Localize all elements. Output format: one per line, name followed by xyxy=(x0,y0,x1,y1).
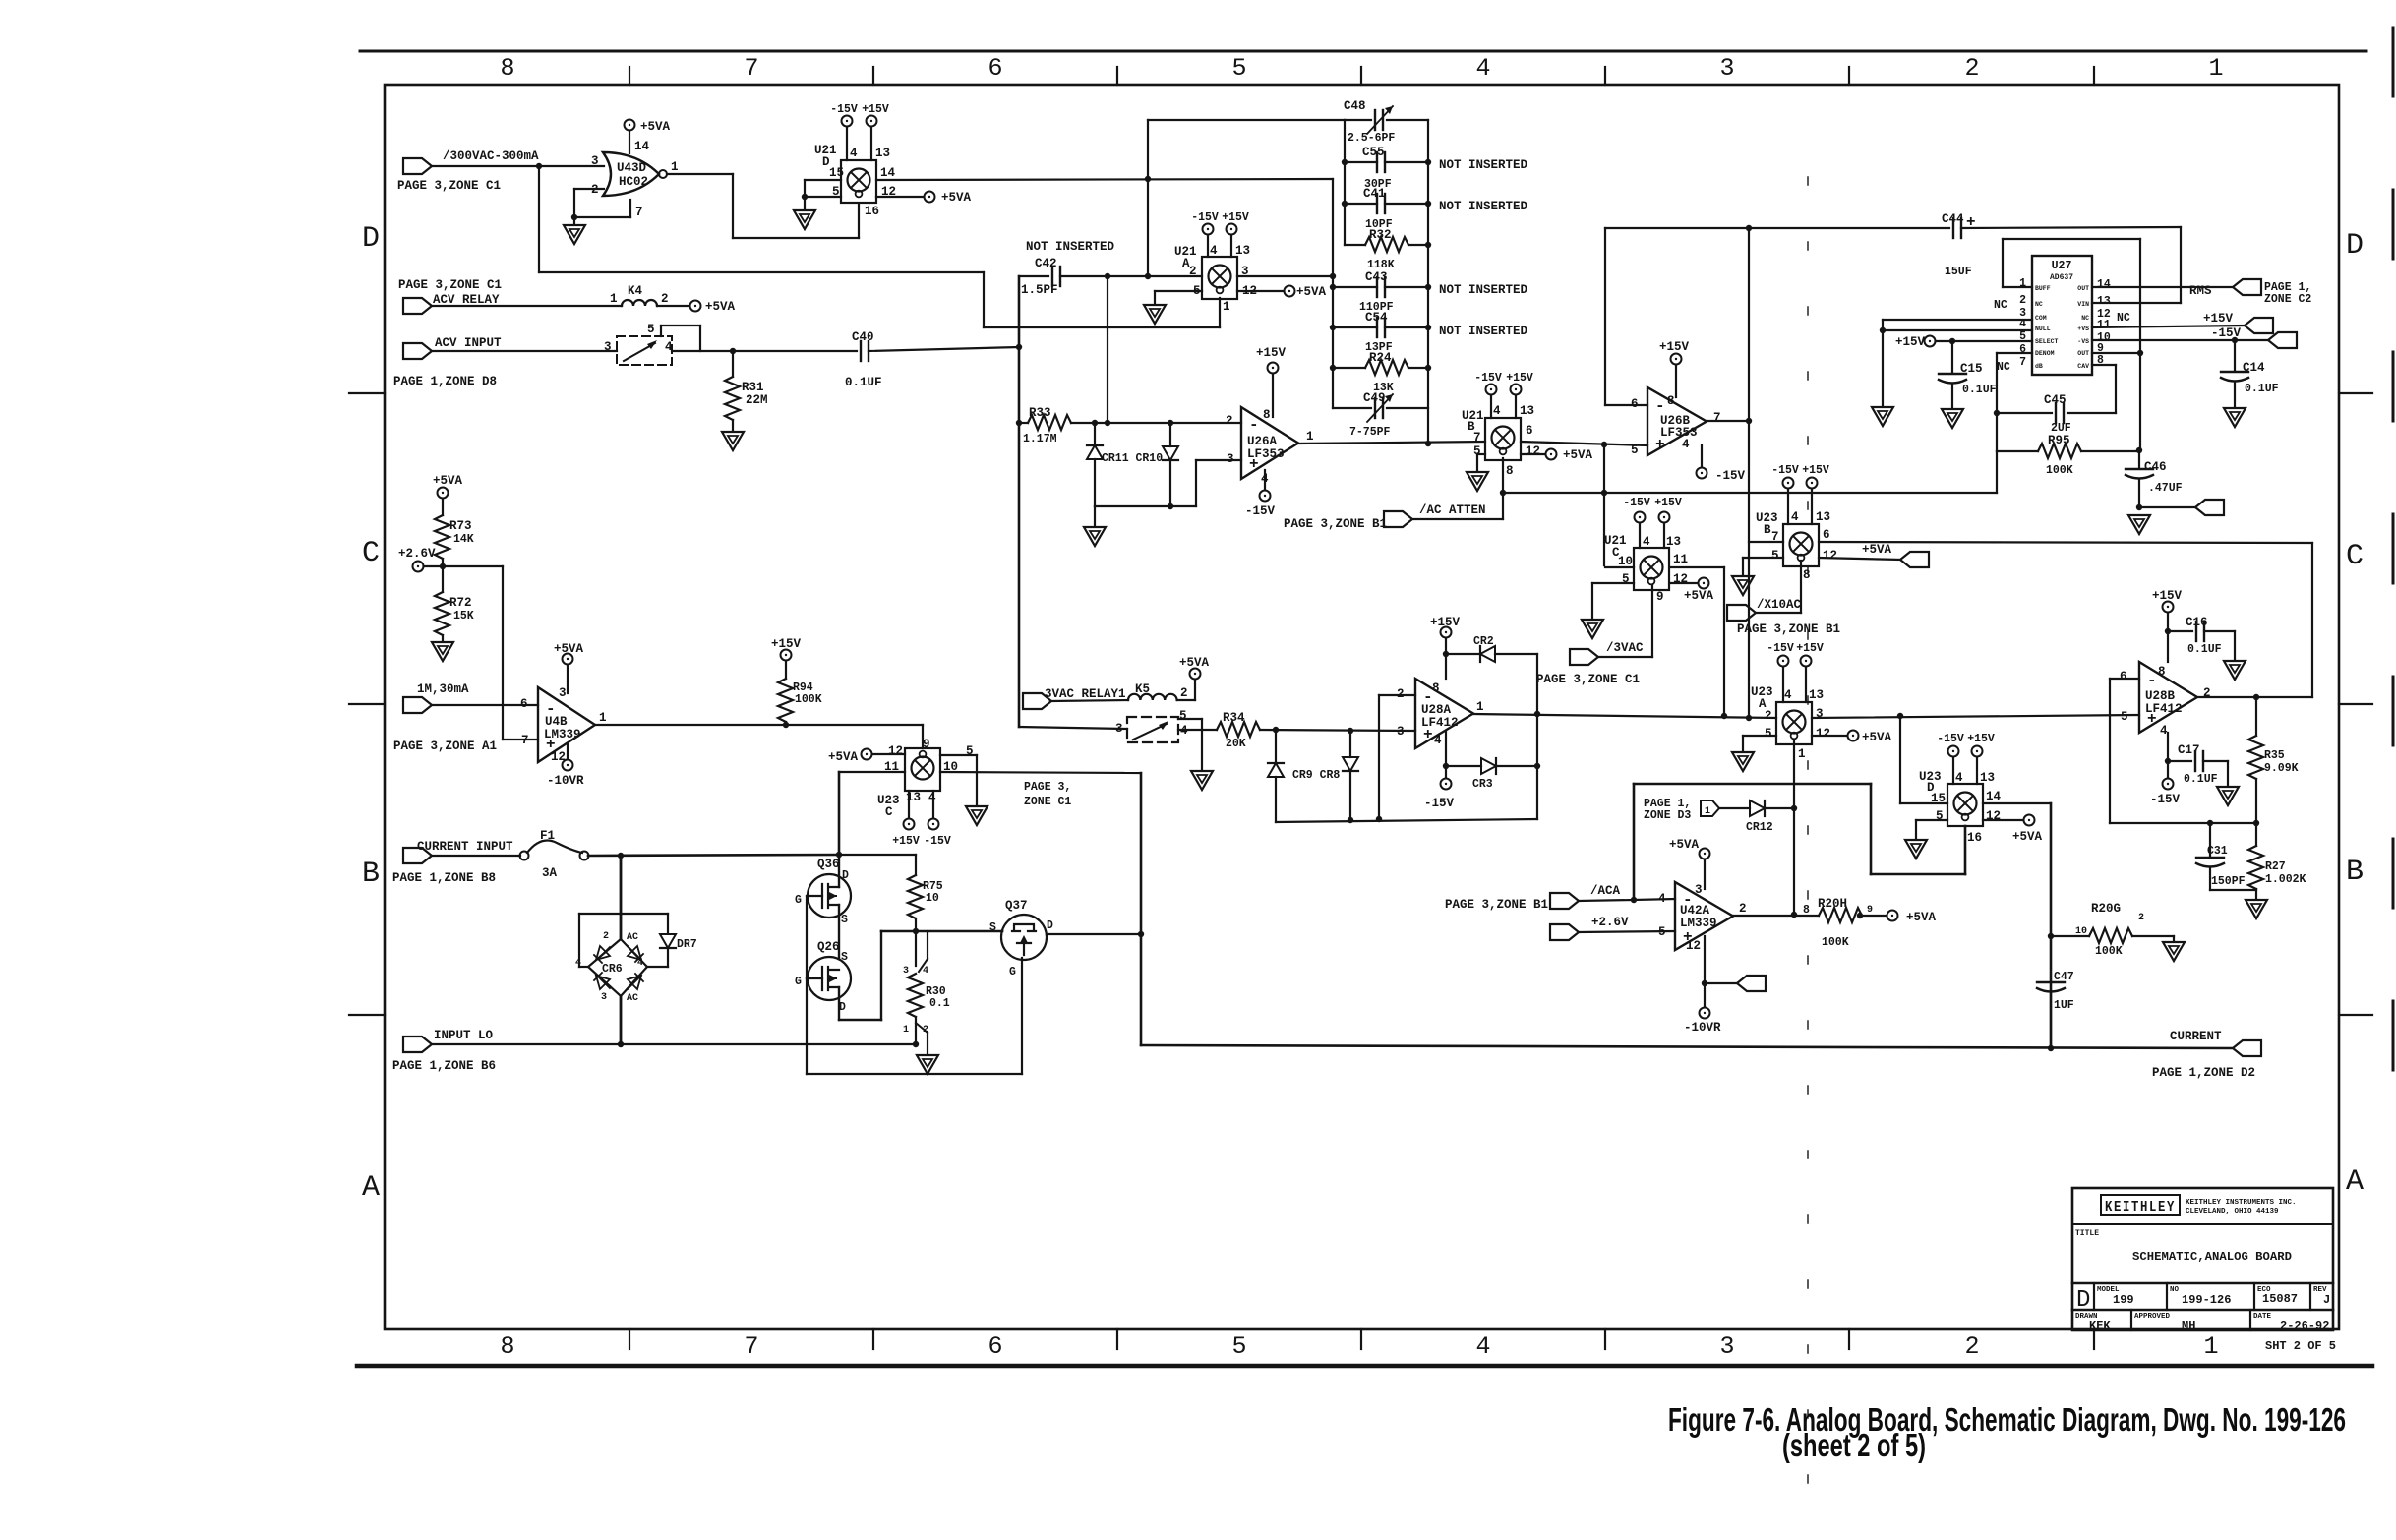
mux switch U23B xyxy=(1783,524,1819,566)
svg-text:13: 13 xyxy=(875,147,890,160)
node R94 bottom xyxy=(783,722,789,728)
wire U23D pin 4 xyxy=(1952,757,1954,784)
svg-text:Figure 7-6. Analog Board, Sche: Figure 7-6. Analog Board, Schematic Diag… xyxy=(1668,1401,2346,1438)
output tag at U42A pin 12 xyxy=(1737,976,1766,991)
input tag 1M,30mA xyxy=(403,697,432,713)
node rail at U21A output xyxy=(1330,273,1336,279)
svg-text:C55: C55 xyxy=(1362,146,1385,159)
ground U23C pin 5 xyxy=(966,806,988,825)
svg-text:16: 16 xyxy=(1967,831,1982,845)
wire C46 node to tag xyxy=(2139,506,2195,508)
svg-text:NULL: NULL xyxy=(2035,326,2051,332)
svg-text:13: 13 xyxy=(1235,244,1250,258)
svg-text:CR9 CR8: CR9 CR8 xyxy=(1292,769,1340,782)
wire K4 coil to +5VA xyxy=(657,305,689,307)
node C42 line x1126 xyxy=(1105,273,1110,279)
wire U23B pin 13 xyxy=(1811,489,1813,524)
wire U23C pin 4 power xyxy=(932,791,934,818)
svg-text:+15V: +15V xyxy=(1659,340,1690,354)
svg-text:C45: C45 xyxy=(2044,393,2067,407)
svg-text:-15V: -15V xyxy=(924,835,951,848)
svg-text:12: 12 xyxy=(1686,939,1701,953)
ground R72 xyxy=(432,642,453,661)
svg-text:+15V: +15V xyxy=(1506,372,1533,385)
svg-text:-15V: -15V xyxy=(1424,797,1455,810)
svg-text:12: 12 xyxy=(1816,727,1830,740)
wire K5 coil to +5VA xyxy=(1177,699,1195,701)
svg-text:RMS: RMS xyxy=(2189,284,2212,298)
svg-text:+15V: +15V xyxy=(1802,464,1829,477)
wire C42 branch xyxy=(1019,275,1048,277)
svg-text:1: 1 xyxy=(1223,300,1230,314)
wire U28A output xyxy=(1473,714,1776,718)
svg-text:6: 6 xyxy=(2120,670,2127,683)
svg-text:C54: C54 xyxy=(1365,311,1388,325)
capacitor C31 xyxy=(2209,823,2211,856)
diode DR7 xyxy=(660,934,676,948)
wire x1778 vertical xyxy=(1748,228,1750,718)
svg-text:R24: R24 xyxy=(1369,351,1392,365)
wire U21C pin 10 from feedback xyxy=(1605,566,1634,568)
wire U21C pin 12 to +5VA xyxy=(1670,582,1698,584)
svg-text:-15V: -15V xyxy=(1191,211,1219,224)
svg-text:4: 4 xyxy=(1791,510,1799,524)
transistor Q37 xyxy=(1001,915,1047,960)
bridge box top xyxy=(579,913,668,915)
node x1167 at C42 line xyxy=(1145,273,1151,279)
svg-text:2: 2 xyxy=(603,931,609,942)
ladder upper left rail xyxy=(1344,120,1346,245)
node ACV at x1036 xyxy=(1016,344,1022,350)
svg-text:/ACA: /ACA xyxy=(1590,884,1621,898)
svg-text:MH: MH xyxy=(2182,1319,2195,1333)
wire y501 corner to R95 node xyxy=(1996,451,1998,493)
svg-text:OUT: OUT xyxy=(2077,285,2089,292)
node x1778 at U28A out line xyxy=(1746,715,1752,721)
svg-text:6: 6 xyxy=(1823,528,1830,542)
svg-text:C16: C16 xyxy=(2186,616,2208,629)
svg-text:7: 7 xyxy=(744,54,758,83)
ground diode clamp xyxy=(1084,527,1106,546)
ground R27 xyxy=(2246,900,2267,918)
capacitor C42 (not inserted) xyxy=(1051,267,1053,286)
resistor R32 xyxy=(1345,244,1365,246)
wire U23B pin 12 to +5VA tag xyxy=(1819,558,1900,560)
wire U26A output to U21B xyxy=(1298,442,1485,444)
wire U21C pin 4 xyxy=(1639,523,1641,548)
wire U23C pin 13 power xyxy=(908,791,910,818)
svg-text:+5VA: +5VA xyxy=(1179,656,1210,670)
input tag INPUT LO xyxy=(403,1037,432,1052)
resistor R95 xyxy=(1997,450,2038,452)
svg-text:10: 10 xyxy=(2075,926,2087,937)
svg-text:F1: F1 xyxy=(540,829,555,843)
input tag /3VAC xyxy=(1570,649,1598,665)
svg-text:0.1: 0.1 xyxy=(929,997,950,1010)
svg-text:22M: 22M xyxy=(746,393,768,407)
transistor Q26 xyxy=(808,957,851,1000)
svg-text:CURRENT: CURRENT xyxy=(2170,1030,2222,1043)
wire U28A pin 2 input xyxy=(1379,694,1415,696)
wire clamp to ground xyxy=(1094,506,1096,525)
resistor R73 xyxy=(442,499,444,515)
wire U43D output xyxy=(667,173,733,175)
wire U23B pin 8 to /X10AC xyxy=(1800,561,1802,613)
svg-text:NOT INSERTED: NOT INSERTED xyxy=(1439,158,1528,172)
wire 3VAC RELAY to K5 xyxy=(1051,700,1128,701)
svg-text:B: B xyxy=(362,858,380,891)
power -15V for U23D xyxy=(1948,746,1959,757)
svg-text:Q36: Q36 xyxy=(817,858,840,871)
svg-text:7: 7 xyxy=(2019,356,2026,369)
svg-text:NC: NC xyxy=(2035,301,2043,308)
ground C14 xyxy=(2224,408,2246,427)
power +5VA at K5 xyxy=(1190,669,1201,680)
wire K5 to R34 xyxy=(1178,729,1217,731)
node CR3 tap xyxy=(1443,763,1449,769)
ground U23B xyxy=(1732,576,1754,595)
svg-text:+5VA: +5VA xyxy=(828,750,859,764)
wire U27 pin 4 NULL to ground xyxy=(1883,329,2032,331)
resistor R24 xyxy=(1333,367,1365,369)
wire U23A pin 5 to ground xyxy=(1743,735,1776,737)
svg-text:1: 1 xyxy=(2208,54,2223,83)
wire loop right corner xyxy=(1536,713,1538,819)
svg-text:CAV: CAV xyxy=(2077,363,2089,370)
input tag boxed 1 xyxy=(1701,800,1719,816)
svg-text:15UF: 15UF xyxy=(1945,266,1972,278)
power +15V for U21D xyxy=(867,116,877,127)
svg-text:4: 4 xyxy=(1210,244,1218,258)
capacitor C46 xyxy=(2138,451,2140,467)
svg-text:2-26-92: 2-26-92 xyxy=(2280,1319,2329,1333)
wire U27 pin 10 to -15V tag xyxy=(2092,339,2268,341)
wire x1631 between nets xyxy=(1603,444,1605,565)
wire ACA to pin 4 xyxy=(1634,899,1675,900)
wire U21D pin 15 to ground net xyxy=(805,179,841,181)
right page edge dashed line xyxy=(2392,28,2395,1160)
svg-text:6: 6 xyxy=(520,697,528,711)
node C31 tap xyxy=(2207,820,2213,826)
power +5VA at U23D pin 12 xyxy=(2024,815,2035,826)
resistor R35 xyxy=(2255,697,2257,736)
power -15V for U28A xyxy=(1441,779,1452,790)
svg-text:-15V: -15V xyxy=(1623,497,1650,509)
power -15V for U23A xyxy=(1778,656,1789,667)
svg-text:100K: 100K xyxy=(2046,464,2073,477)
svg-text:2: 2 xyxy=(1765,709,1772,723)
node CR8 top xyxy=(1348,728,1353,734)
node CR12 junction xyxy=(1791,805,1797,811)
svg-text:U28B: U28B xyxy=(2145,689,2176,703)
power +15V below U23C xyxy=(904,819,915,830)
svg-text:9: 9 xyxy=(1656,590,1664,604)
svg-text:9: 9 xyxy=(1867,905,1873,916)
capacitor C55 (not inserted) xyxy=(1345,161,1377,163)
svg-text:1: 1 xyxy=(2203,1333,2218,1361)
power +5VA for U43D xyxy=(625,120,635,131)
power +15V for U21B xyxy=(1511,385,1522,395)
svg-text:100K: 100K xyxy=(795,693,822,706)
input tag /ACA xyxy=(1550,893,1579,909)
svg-text:11: 11 xyxy=(1673,553,1688,566)
svg-text:3: 3 xyxy=(1719,1333,1734,1361)
svg-text:U42A: U42A xyxy=(1680,904,1710,918)
node U28B output at R35 xyxy=(2253,694,2259,700)
svg-text:+15V: +15V xyxy=(1895,335,1926,349)
page fold dashed line xyxy=(1807,177,1809,1534)
svg-text:3: 3 xyxy=(1227,452,1234,466)
output tag RMS xyxy=(2233,279,2261,295)
wire C42 net step down xyxy=(983,272,985,327)
wire /ACA to U42A pin 4 xyxy=(1579,900,1634,901)
svg-text:NC: NC xyxy=(1997,361,2010,374)
svg-text:CR6: CR6 xyxy=(602,963,623,976)
resistor R27 xyxy=(2255,823,2257,846)
svg-text:NC: NC xyxy=(2081,315,2089,322)
wire tag to CR12 xyxy=(1719,807,1750,809)
wire Q26 drain loop xyxy=(838,987,840,1020)
wire U26A pin 8 xyxy=(1272,374,1274,417)
svg-text:2: 2 xyxy=(1964,54,1979,83)
left edge zone ticks xyxy=(349,392,385,394)
svg-text:NO: NO xyxy=(2170,1286,2180,1294)
svg-text:SHT 2 OF 5: SHT 2 OF 5 xyxy=(2265,1339,2336,1353)
power -15V for U28B xyxy=(2163,779,2174,790)
wire C48 top feed xyxy=(1148,119,1345,121)
svg-text:APPROVED: APPROVED xyxy=(2134,1313,2171,1321)
svg-text:-15V: -15V xyxy=(830,103,858,116)
svg-text:R20H: R20H xyxy=(1818,897,1847,911)
svg-text:NOT INSERTED: NOT INSERTED xyxy=(1439,325,1528,338)
svg-text:TITLE: TITLE xyxy=(2075,1229,2099,1238)
svg-text:NOT INSERTED: NOT INSERTED xyxy=(1026,240,1115,254)
svg-text:4: 4 xyxy=(1955,771,1963,785)
svg-text:0.1UF: 0.1UF xyxy=(1962,384,1997,396)
resistor R33 xyxy=(1019,422,1028,424)
op-amp U42A xyxy=(1675,882,1733,950)
svg-text:12: 12 xyxy=(888,744,903,758)
svg-text:C15: C15 xyxy=(1960,362,1983,376)
capacitor C54 (not inserted) xyxy=(1333,326,1377,328)
svg-text:1: 1 xyxy=(1798,747,1806,761)
power +15V for U23D xyxy=(1972,746,1983,757)
svg-text:0.1UF: 0.1UF xyxy=(2184,773,2218,786)
wire U4B pin 3 xyxy=(567,665,569,693)
svg-text:+15V: +15V xyxy=(771,637,802,651)
wire x1167 riser xyxy=(1147,120,1149,276)
svg-text:S: S xyxy=(989,921,996,934)
svg-text:14: 14 xyxy=(2097,278,2111,291)
wire U21D pin 5 to ground net xyxy=(805,196,841,198)
svg-text:-: - xyxy=(1655,397,1665,415)
svg-text:4: 4 xyxy=(1784,688,1792,702)
svg-text:Q26: Q26 xyxy=(817,940,840,954)
wire U23A pin 1 drop xyxy=(1793,740,1795,808)
svg-text:-15V: -15V xyxy=(1771,464,1799,477)
wire U27 pin 6 DENOM loop xyxy=(1997,352,2032,354)
wire U27 pin 13 VIN xyxy=(2092,302,2181,304)
wire U23D pin 12 to +5VA xyxy=(1983,819,2023,821)
svg-text:AC: AC xyxy=(627,932,638,943)
svg-text:LM339: LM339 xyxy=(544,728,581,741)
wire U28A pin 4 power xyxy=(1445,731,1447,778)
svg-text:R31: R31 xyxy=(742,381,764,394)
node pin8 at /AC ATTEN line xyxy=(1500,490,1506,496)
wire U42A pin 3 xyxy=(1704,859,1706,889)
svg-text:D: D xyxy=(1047,919,1053,932)
svg-text:8: 8 xyxy=(1263,408,1271,422)
svg-text:+5VA: +5VA xyxy=(1296,285,1327,299)
ground R20G xyxy=(2163,942,2185,961)
wire U23B pin 5 to ground xyxy=(1743,557,1783,559)
svg-text:16: 16 xyxy=(865,205,879,218)
svg-text:B: B xyxy=(2346,856,2364,889)
transistor Q36 xyxy=(808,874,851,918)
svg-text:7: 7 xyxy=(744,1333,758,1361)
svg-text:4: 4 xyxy=(1643,535,1650,549)
capacitor C41 (not inserted) xyxy=(1345,203,1377,205)
svg-text:+15V: +15V xyxy=(1430,616,1461,629)
svg-text:+15V: +15V xyxy=(1654,497,1682,509)
wire CURRENT output line xyxy=(1141,1045,2233,1048)
wire ACV RELAY to K4 coil xyxy=(432,305,622,307)
node U21D ground junction xyxy=(802,194,808,200)
svg-text:2: 2 xyxy=(1226,414,1233,428)
svg-text:J: J xyxy=(2323,1293,2330,1307)
wire Q37 drain xyxy=(1047,933,1141,935)
svg-text:SELECT: SELECT xyxy=(2035,338,2059,345)
svg-text:/300VAC-300mA: /300VAC-300mA xyxy=(443,149,539,163)
power +15V at R94 xyxy=(781,650,792,661)
svg-text:C47: C47 xyxy=(2054,971,2074,983)
wire to R75 xyxy=(839,854,916,856)
power +15V at U27 SELECT xyxy=(1925,336,1936,347)
svg-text:+5VA: +5VA xyxy=(1684,589,1714,603)
svg-text:dB: dB xyxy=(2035,363,2043,370)
svg-text:HC02: HC02 xyxy=(619,175,648,189)
svg-text:R20G: R20G xyxy=(2091,902,2121,916)
svg-text:LF412: LF412 xyxy=(1421,716,1459,730)
svg-text:U4B: U4B xyxy=(545,715,568,729)
power -15V for U21B xyxy=(1486,385,1497,395)
power +5VA at U21D pin 12 xyxy=(925,192,935,203)
wire U43D output down xyxy=(732,174,734,238)
svg-text:G: G xyxy=(795,976,802,988)
wire U21D pin 16 riser xyxy=(858,204,860,238)
inner drawing frame xyxy=(385,85,2339,1329)
node U43D ground junction xyxy=(571,214,577,220)
mux switch U21D xyxy=(841,160,876,203)
svg-text:U28A: U28A xyxy=(1421,703,1452,717)
svg-text:6: 6 xyxy=(1526,424,1533,438)
svg-text:C42: C42 xyxy=(1035,257,1057,270)
diode CR12 xyxy=(1750,800,1765,816)
ground U21C xyxy=(1582,620,1603,638)
svg-text:9.09K: 9.09K xyxy=(2264,762,2299,775)
ground U27 COM xyxy=(1872,407,1893,426)
svg-text:199-126: 199-126 xyxy=(2182,1293,2231,1307)
svg-text:KEK: KEK xyxy=(2089,1319,2111,1333)
wire U28B pin 6 feedback xyxy=(2110,678,2139,680)
node at U42A output line xyxy=(1791,912,1797,918)
svg-text:G: G xyxy=(795,894,802,907)
ground C17 xyxy=(2217,787,2239,805)
input tag ACV RELAY xyxy=(403,298,432,314)
svg-text:5: 5 xyxy=(1771,549,1779,563)
svg-text:PAGE 3,ZONE B1: PAGE 3,ZONE B1 xyxy=(1737,622,1840,636)
svg-text:15087: 15087 xyxy=(2262,1292,2298,1306)
node R30 at INPUT LO xyxy=(913,1041,919,1047)
wire C42 net to U21A pin 1 xyxy=(984,326,1220,328)
wire K4 switch pin 5 jog xyxy=(660,326,662,336)
svg-text:1: 1 xyxy=(1306,430,1314,444)
svg-text:5: 5 xyxy=(1231,1333,1246,1361)
svg-text:11: 11 xyxy=(2097,319,2111,331)
svg-text:PAGE 1,ZONE D8: PAGE 1,ZONE D8 xyxy=(393,375,497,388)
svg-text:-15V: -15V xyxy=(1767,642,1794,655)
svg-text:PAGE 1,ZONE D2: PAGE 1,ZONE D2 xyxy=(2152,1066,2255,1080)
wire U27 pin 14 to RMS tag xyxy=(2092,286,2233,288)
svg-text:3: 3 xyxy=(591,154,599,168)
node +2.6V / R72 / R73 xyxy=(440,563,446,569)
resistor R20G xyxy=(2089,928,2132,943)
svg-text:LF353: LF353 xyxy=(1660,426,1698,440)
wire U21B pin 8 control xyxy=(1502,458,1504,493)
svg-text:8: 8 xyxy=(2158,665,2166,679)
svg-text:C17: C17 xyxy=(2178,743,2200,757)
svg-text:C48: C48 xyxy=(1344,99,1366,113)
node C15 tap xyxy=(1949,338,1955,344)
wire U21D pin 13 xyxy=(870,127,872,160)
svg-text:LM339: LM339 xyxy=(1680,917,1717,930)
mux switch U21A xyxy=(1202,257,1237,299)
svg-text:1: 1 xyxy=(1118,687,1126,701)
wire U28B pin 8 power xyxy=(2167,613,2169,662)
wire U26B pin 8 xyxy=(1675,365,1677,397)
svg-text:4: 4 xyxy=(1493,404,1501,418)
ground U21D xyxy=(794,210,815,229)
source tag +5VA at U23B xyxy=(1900,552,1929,567)
wire U23C pin 11 control xyxy=(839,771,905,773)
svg-text:199: 199 xyxy=(2113,1293,2134,1307)
svg-text:NOT INSERTED: NOT INSERTED xyxy=(1439,283,1528,297)
svg-text:C40: C40 xyxy=(852,330,874,344)
wire clamp bottom to feedback loop xyxy=(1276,819,1537,822)
power +5VA at R20H xyxy=(1887,911,1898,921)
capacitor C15 xyxy=(1951,341,1953,372)
title block row dividers xyxy=(2072,1223,2333,1225)
node R20G junction xyxy=(2048,933,2054,939)
node CR8 bottom xyxy=(1348,817,1353,823)
power +5VA for U42A xyxy=(1700,849,1710,859)
mux switch U23A xyxy=(1776,702,1812,744)
svg-text:INPUT LO: INPUT LO xyxy=(434,1029,494,1042)
svg-text:3A: 3A xyxy=(542,866,558,880)
node pin 2 feedback xyxy=(1376,816,1382,822)
svg-text:1UF: 1UF xyxy=(2054,999,2074,1012)
wire U21A pin 12 to +5VA xyxy=(1237,290,1284,292)
node CR3 at loop xyxy=(1534,763,1540,769)
node C45 left xyxy=(1994,410,2000,416)
wire R34 to U28A + xyxy=(1260,730,1415,731)
svg-text:+5VA: +5VA xyxy=(1906,911,1937,924)
resistor R75 xyxy=(915,855,917,875)
svg-text:2.5-6PF: 2.5-6PF xyxy=(1348,132,1395,145)
power -15V for U21C xyxy=(1635,512,1646,523)
svg-text:13: 13 xyxy=(1666,535,1681,549)
input tag /X10AC xyxy=(1727,605,1756,621)
